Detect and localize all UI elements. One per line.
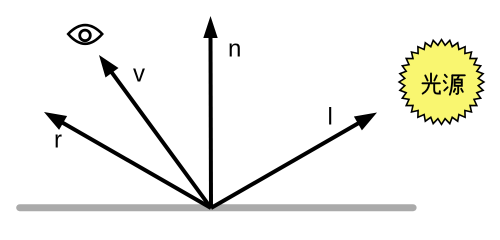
ground surface line bbox=[20, 204, 413, 211]
svg-text:n: n bbox=[228, 36, 241, 63]
text 光源 (drawn as strokes) bbox=[423, 74, 465, 95]
svg-text:v: v bbox=[133, 61, 145, 88]
svg-text:r: r bbox=[54, 126, 62, 153]
光 bbox=[430, 74, 432, 83]
vector r (reflection) bbox=[44, 112, 211, 208]
vector n (normal) bbox=[203, 16, 217, 208]
源 bbox=[445, 75, 447, 77]
vector l (light) bbox=[211, 113, 377, 209]
eye icon bbox=[68, 25, 102, 44]
light source starburst bbox=[399, 40, 484, 125]
svg-text:l: l bbox=[328, 103, 333, 130]
vector v (view) bbox=[99, 55, 211, 208]
